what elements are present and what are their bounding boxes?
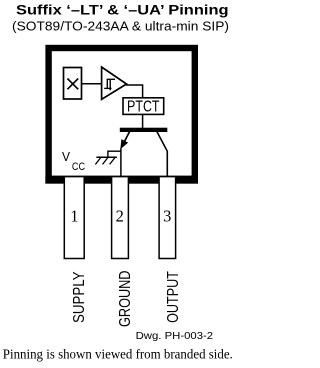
wire amplifier output to PTCT [126,85,143,98]
svg-text:Dwg. PH-003-2: Dwg. PH-003-2 [136,330,214,342]
footer note [3,347,233,362]
pin 1 lead [64,177,84,258]
transistor Q1 collector and wire to pin 3 [157,132,167,178]
svg-text:1: 1 [70,207,78,226]
pin 2 lead [112,177,129,258]
svg-text:(SOT89/TO-243AA & ultra-min SI: (SOT89/TO-243AA & ultra-min SIP) [12,18,229,33]
svg-text:3: 3 [163,207,171,226]
svg-text:Suffix ‘–LT’ & ‘–UA’ Pinning: Suffix ‘–LT’ & ‘–UA’ Pinning [16,3,229,19]
pin 1 label SUPPLY [71,271,88,323]
svg-text:2: 2 [116,207,124,226]
title [16,3,229,19]
svg-text:Pinning is shown viewed from b: Pinning is shown viewed from branded sid… [3,347,233,362]
svg-text:SUPPLY: SUPPLY [71,271,88,323]
hysteresis symbol inside op-amp [104,79,115,90]
wire PTCT to transistor base [142,114,144,128]
pin 2 label GROUND [117,271,134,328]
svg-text:PTCT: PTCT [127,99,160,116]
wire emitter to pin 2 [120,149,122,179]
transistor Q1 base bar [120,128,168,132]
svg-text:V: V [62,149,70,164]
transistor Q1 emitter with arrow [120,132,129,150]
svg-text:CC: CC [72,161,85,173]
node VCC label [62,149,85,173]
drawing number [136,330,214,342]
PTCT block [123,98,164,116]
op-amp U1 (Schmitt trigger amplifier) [102,67,127,99]
hall element X1 [64,68,82,100]
svg-text:GROUND: GROUND [117,271,134,328]
svg-text:OUTPUT: OUTPUT [165,271,182,323]
package outline box [45,48,198,184]
wire hall element to amplifier [82,83,102,85]
pin 3 lead [159,177,176,258]
ground symbol (chassis) [95,151,121,165]
pin 3 label OUTPUT [165,271,182,323]
subtitle [12,18,229,33]
